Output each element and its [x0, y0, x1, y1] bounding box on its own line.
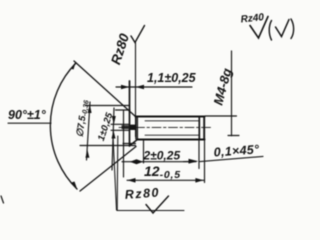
- Rz80 bottom shelf: [117, 210, 184, 212]
- shaft end face: [203, 117, 205, 140]
- head top extension line: [86, 105, 130, 107]
- svg-text:Rz80: Rz80: [124, 185, 160, 201]
- thread minor bottom: [145, 134, 199, 136]
- Rz80 top extension tick: [129, 81, 131, 88]
- head flat face: [129, 81, 131, 146]
- label 90deg underline: [8, 122, 51, 124]
- slot notch: [130, 125, 136, 130]
- svg-text:Rz40: Rz40: [240, 12, 265, 25]
- chamfer text line: [200, 156, 263, 161]
- thread minor top: [145, 120, 199, 122]
- slot dark band: [122, 125, 131, 129]
- paren right: [291, 19, 294, 39]
- angular dimension arc 90 deg: [50, 63, 77, 189]
- unknown vertical line: [123, 111, 125, 177]
- head height dim line 2: [122, 161, 196, 163]
- shaft bottom outline: [138, 139, 205, 141]
- dia dim arrow bottom: [85, 150, 89, 158]
- slot width dim line: [112, 108, 114, 170]
- svg-text:90°±1°: 90°±1°: [8, 108, 47, 122]
- lower cone sector line: [80, 147, 136, 192]
- head bottom ext stub: [123, 143, 136, 145]
- dia 7.5 dim line: [87, 102, 91, 160]
- upper cone sector line: [74, 61, 136, 117]
- Rz40 big check: [250, 17, 268, 39]
- slot width ext top: [111, 123, 130, 125]
- slot dim arrow lower: [112, 130, 116, 138]
- 12 arrow left: [127, 178, 135, 183]
- slot bottom line: [135, 42, 137, 137]
- thread top ext line: [205, 115, 237, 117]
- thread dim line M4: [231, 51, 233, 136]
- arc arrowhead bottom: [72, 182, 78, 191]
- arc arrowhead top: [71, 62, 77, 70]
- slot width ext bottom: [111, 129, 130, 131]
- head-shaft junction line: [136, 117, 138, 140]
- slot depth dim line 1.1: [116, 86, 192, 88]
- thread dim bottom tick: [228, 135, 239, 137]
- Rz40 small check: [276, 20, 290, 37]
- 1.1 arrow right: [136, 85, 144, 89]
- chamfer line: [198, 117, 200, 139]
- Rz80 bottom check mark: [146, 196, 169, 213]
- chamfer ext down: [198, 139, 200, 169]
- centerline: [119, 126, 211, 128]
- shaft top outline: [136, 116, 205, 118]
- svg-text:Rz80: Rz80: [108, 31, 132, 66]
- end face ext down: [204, 140, 206, 183]
- vertex ext line: [143, 140, 145, 163]
- 12 arrow right: [195, 178, 203, 183]
- slot dim arrow upper: [112, 116, 116, 125]
- junction inner line: [135, 117, 137, 139]
- leader line 2: [116, 136, 119, 210]
- 1.1 arrow left: [121, 85, 129, 89]
- head top ext stub: [116, 109, 131, 111]
- paren left: [269, 21, 271, 41]
- dia dim arrow top: [88, 105, 92, 114]
- Rz80 top check mark: [131, 26, 145, 43]
- svg-text:2±0,25: 2±0,25: [143, 149, 181, 163]
- head lower cone edge: [130, 139, 139, 146]
- svg-text:1,1±0,25: 1,1±0,25: [147, 71, 197, 85]
- length dim line 12: [127, 179, 204, 181]
- svg-text:12-0,5: 12-0,5: [144, 163, 181, 181]
- chamfer arrow tail: [184, 161, 191, 163]
- head bottom extension line: [80, 145, 136, 147]
- chamfer dim arrow: [189, 159, 199, 164]
- 2 dim merged arrows: [130, 159, 143, 164]
- scan artifact left edge: [1, 196, 4, 203]
- leader line to slot: [113, 136, 117, 210]
